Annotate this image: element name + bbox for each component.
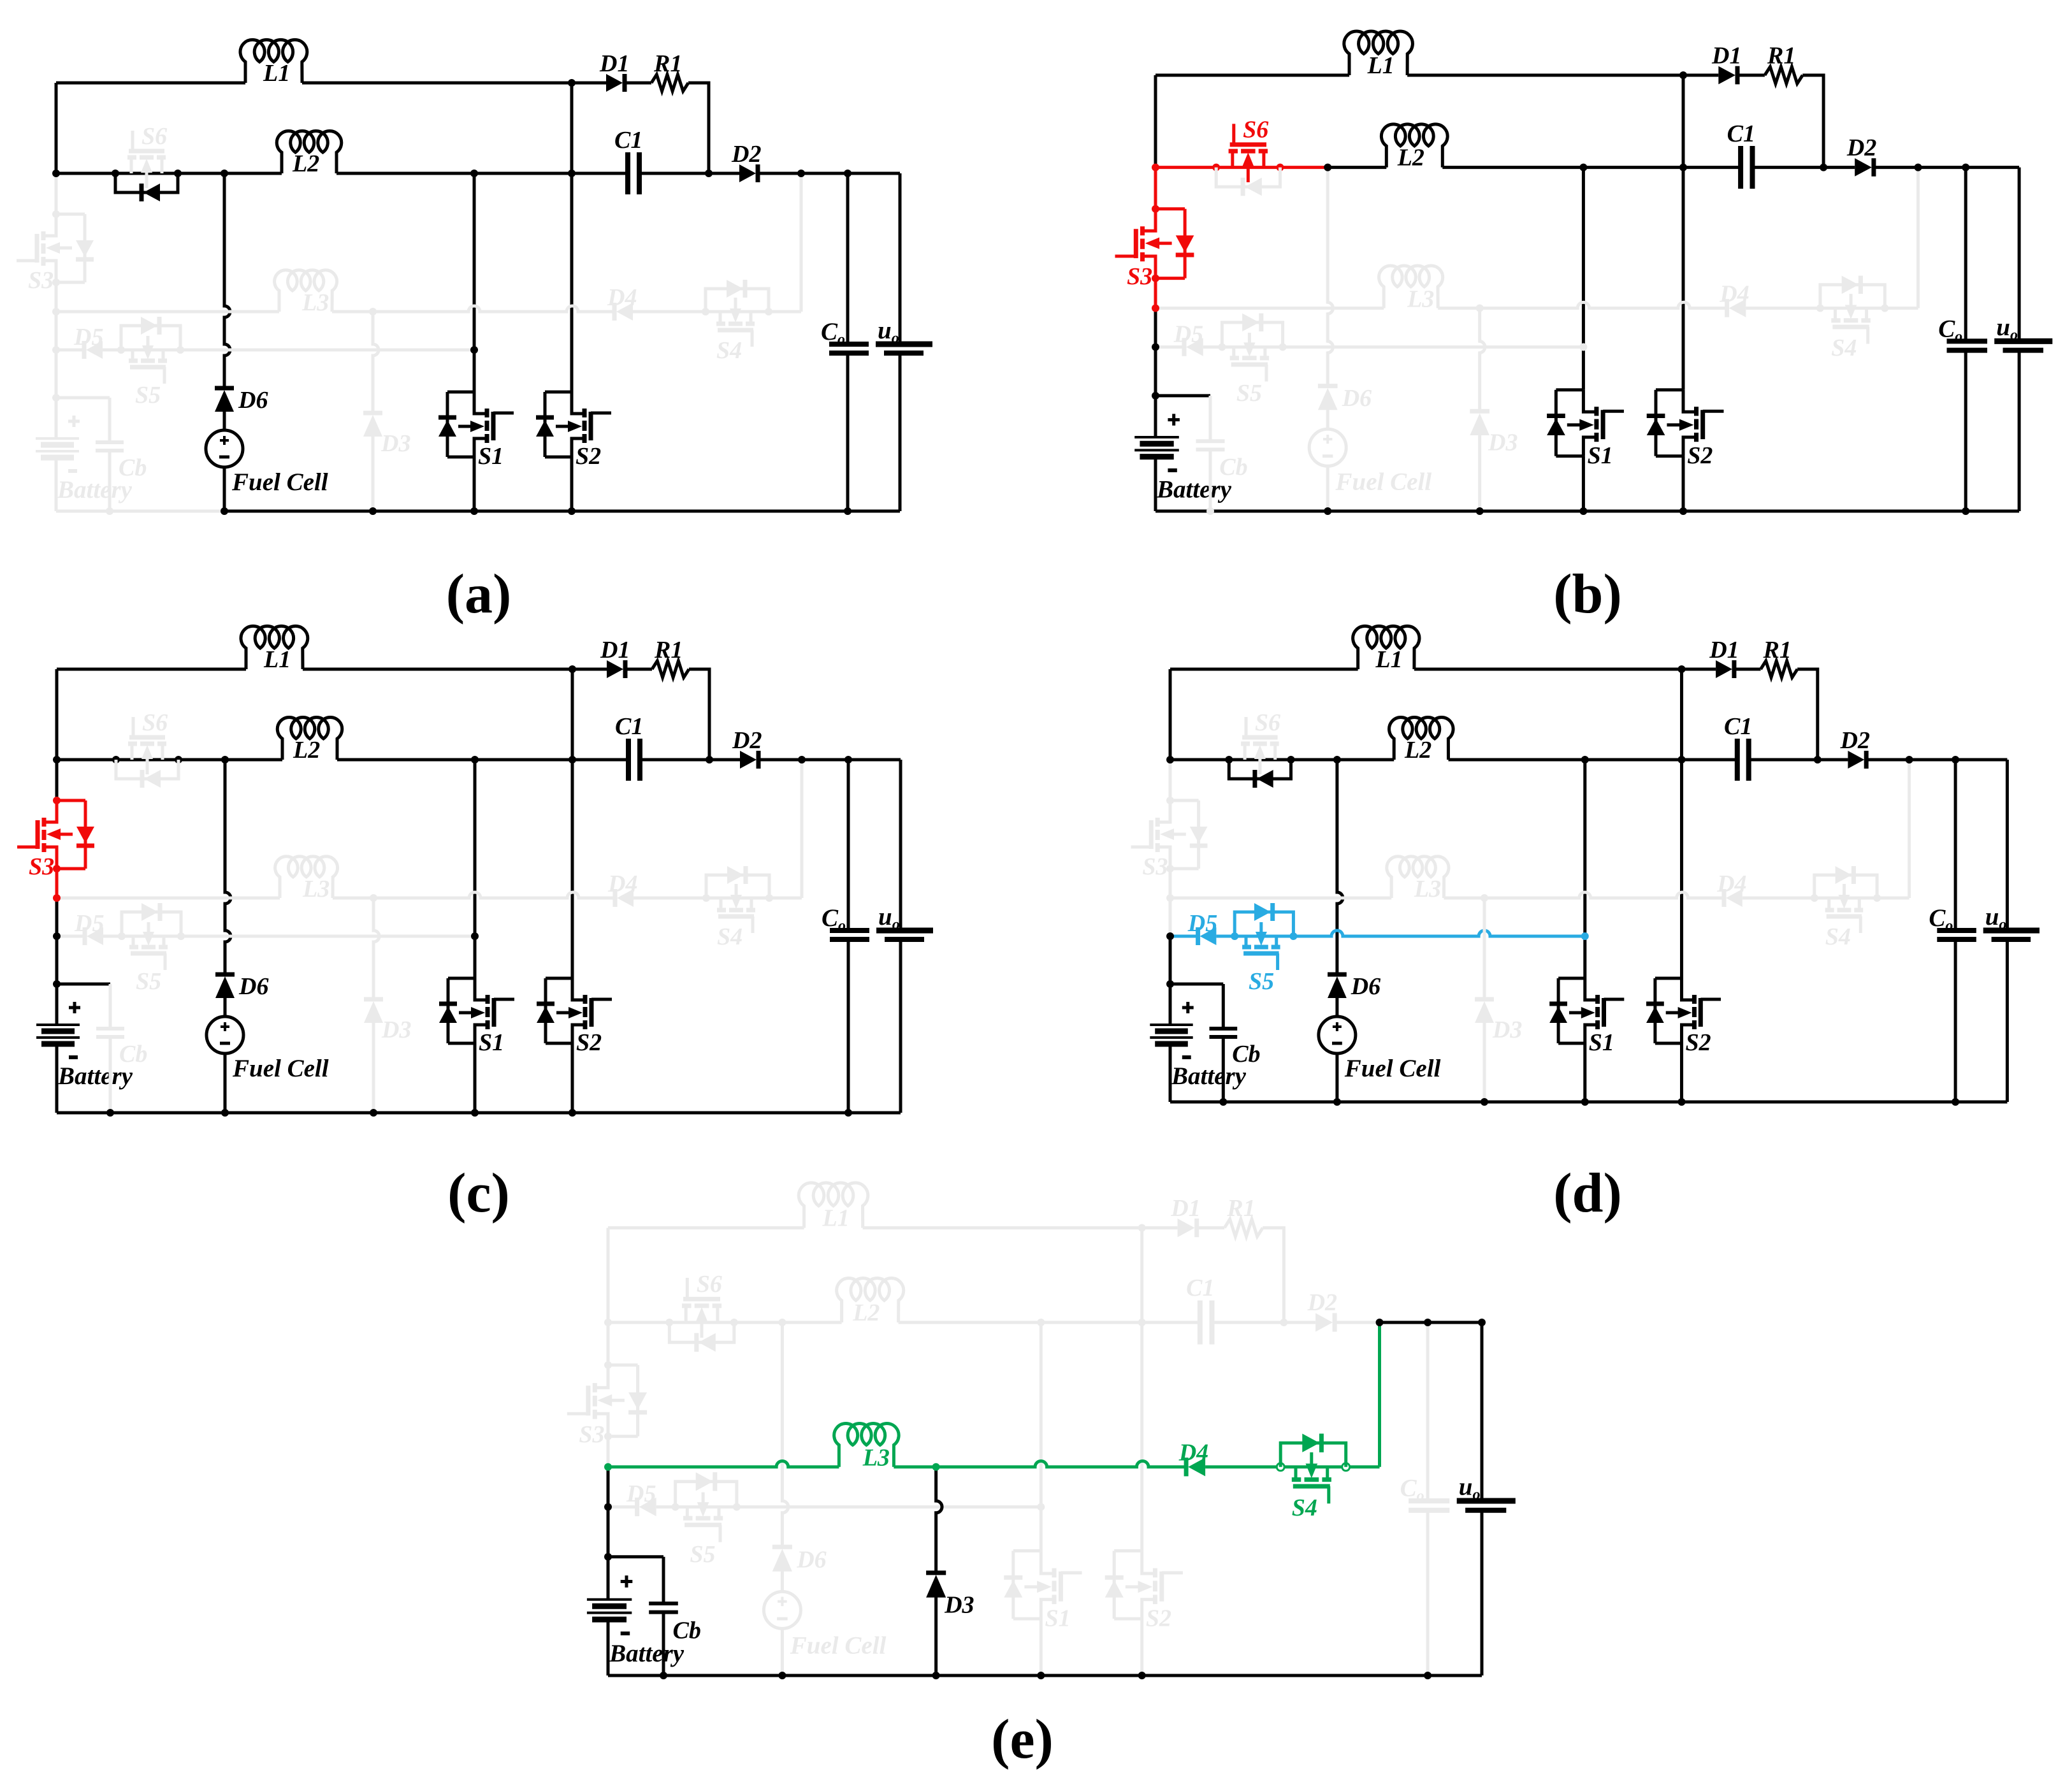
wire Co top lead: [1426, 1322, 1430, 1501]
wire left rail S3 lower: [55, 869, 59, 898]
node left rail / L2 rail junction: [53, 756, 61, 763]
node left rail / D5 rail junction: [53, 932, 61, 940]
inductor L1: [241, 626, 308, 669]
node S4 loop right junction: [1873, 894, 1881, 902]
node S4 loop right junction: [765, 894, 773, 902]
node D3 / L3 rail junction: [369, 308, 377, 315]
svg-text:R1: R1: [1767, 43, 1795, 69]
transistor S5 arrow: [1248, 333, 1251, 351]
wire left rail to D5 node: [55, 898, 59, 936]
node S2 / L2 rail junction: [568, 170, 576, 177]
wire S2 source stub: [546, 1042, 572, 1045]
voltage source uo plates: [1983, 928, 2039, 934]
node left rail / L3 rail junction: [53, 894, 61, 902]
svg-text:Fuel Cell: Fuel Cell: [1344, 1055, 1441, 1082]
battery plates: [36, 1024, 80, 1026]
wire fuel cell top lead: [223, 407, 226, 430]
wire S2 drain riser upper: [570, 83, 574, 173]
node S3 bottom junction: [52, 279, 60, 286]
transistor S6 channel: [682, 1303, 692, 1308]
inductor L2: [837, 1278, 904, 1322]
voltage source uo plates: [1457, 1498, 1516, 1504]
transistor S6 gate: [683, 1297, 720, 1301]
battery plus sign: [625, 1575, 628, 1588]
svg-text:L3: L3: [301, 289, 329, 316]
transistor S4 leads: [720, 898, 723, 910]
node Cb / bottom rail junction: [106, 507, 113, 515]
wire S5 body-diode loop: [1222, 322, 1282, 347]
wire S2 drain riser upper: [1680, 669, 1683, 760]
wire D1 to R1: [627, 668, 652, 671]
wire S2 drain riser upper: [1682, 75, 1685, 168]
transistor S6 gate: [1242, 735, 1278, 740]
transistor S2 drain lead: [1142, 1551, 1156, 1574]
transistor S1 gate: [491, 412, 496, 440]
transistor S6 gate lead: [132, 717, 135, 737]
transistor S2 channel: [583, 995, 588, 1004]
transistor S3 arrow: [604, 1399, 625, 1402]
transistor S4 arrow: [1843, 884, 1846, 902]
transistor S3 drain lead: [1143, 256, 1156, 279]
wire L3 rail segment 1: [56, 310, 279, 314]
transistor S3 channel: [593, 1410, 597, 1419]
wire top rail to D1: [1142, 1226, 1178, 1229]
svg-text:S1: S1: [1588, 442, 1613, 469]
wire uo bottom lead: [899, 939, 902, 1113]
node Cb / bottom rail junction: [660, 1672, 667, 1679]
wire L3 rail segment 4: [1877, 897, 1909, 900]
node R1 branch / L2 rail junction: [705, 170, 713, 177]
wire D3 branch upper: [1483, 898, 1486, 999]
wire riser to output node: [1908, 760, 1911, 898]
node S4 loop left junction: [702, 308, 709, 315]
wire uo top lead: [1481, 1322, 1484, 1501]
diode body-diode of S2: [536, 416, 554, 420]
transistor S1 source lead: [1041, 1600, 1054, 1619]
wire L3 rail through S4: [706, 897, 769, 900]
wire S1 drain stub: [447, 391, 474, 394]
svg-text:Cb: Cb: [673, 1617, 701, 1644]
diode D5: [87, 927, 103, 945]
wire left rail to battery: [1169, 936, 1172, 984]
transistor S3 channel: [42, 843, 47, 852]
svg-text:L1: L1: [1367, 52, 1395, 79]
wire bottom rail right: [225, 1111, 901, 1115]
node left rail / L2 rail junction: [1152, 164, 1159, 171]
wire left rail S3 upper: [55, 173, 58, 214]
transistor S6 gate: [1230, 142, 1266, 147]
wire L3 rail through S4: [706, 310, 769, 314]
wire D5 rail segment 2: [103, 935, 475, 938]
wire S4 body-diode loop: [1815, 875, 1877, 898]
wire S1 drain riser: [1040, 1322, 1043, 1551]
inductor L3: [834, 1424, 899, 1467]
wire L3 rail segment 2: [1444, 892, 1724, 898]
wire S1 source lead: [1583, 1043, 1586, 1102]
node S3 bottom junction: [53, 865, 61, 872]
wire left rail to battery: [55, 350, 58, 398]
wire battery bottom lead: [55, 1044, 59, 1113]
node left rail / L2 rail junction: [52, 170, 60, 177]
svg-text:D1: D1: [1711, 43, 1741, 69]
diode body-diode of S3: [76, 240, 94, 257]
fuel cell plus: [1326, 435, 1329, 444]
wire fuel cell top lead: [1326, 405, 1329, 429]
diode D2: [739, 164, 756, 182]
svg-text:S2: S2: [1686, 1029, 1711, 1056]
diode D3: [364, 1001, 383, 1023]
node S6 loop left junction: [665, 1319, 673, 1326]
diode body-diode of S6: [699, 1333, 716, 1352]
wire L3 rail through S4: [1820, 307, 1885, 310]
wire D2 to node: [1335, 1321, 1379, 1324]
wire S2 source stub: [1114, 1617, 1142, 1621]
node S3 bottom junction: [1166, 865, 1174, 872]
wire D1 to R1: [1735, 668, 1761, 671]
svg-text:S3: S3: [579, 1421, 604, 1448]
wire L2 rail segment 1: [608, 1321, 782, 1324]
svg-text:D2: D2: [1307, 1289, 1337, 1316]
node Co / output rail junction: [1962, 164, 1969, 171]
diode body-diode of S4: [727, 280, 743, 298]
svg-text:D6: D6: [238, 973, 268, 1000]
transistor S5 arrow: [147, 922, 150, 939]
node S6 loop right junction: [730, 1319, 738, 1326]
node R1 branch / L2 rail junction: [1820, 164, 1827, 171]
diode body-diode of S1: [1547, 414, 1565, 418]
transistor S5 gate: [1243, 952, 1279, 956]
node Co / bottom rail junction: [1424, 1672, 1431, 1679]
svg-text:S3: S3: [28, 267, 54, 294]
diode D6: [1318, 388, 1338, 410]
wire S3 top stub: [1170, 799, 1199, 802]
node S2 / bottom rail junction: [1138, 1672, 1146, 1679]
transistor S6 channel: [1241, 742, 1250, 746]
node fuel cell / bottom rail junction: [221, 1109, 229, 1117]
wire top rail right segment: [863, 1226, 1142, 1229]
node S5 loop left junction: [672, 1503, 679, 1511]
svg-text:S4: S4: [717, 923, 743, 950]
wire D5 rail segment 1: [56, 349, 86, 352]
svg-text:D6: D6: [796, 1547, 826, 1574]
transistor S6 arrow: [1258, 751, 1261, 774]
svg-text:(d): (d): [1553, 1162, 1622, 1224]
wire L3 rail segment 2: [332, 306, 614, 312]
node top rail / S2 junction: [568, 79, 576, 87]
diode body-diode of S5: [1242, 314, 1259, 331]
wire L2 rail segment 3: [1449, 758, 1737, 762]
node D3 / bottom rail junction: [1476, 507, 1484, 515]
svg-text:D5: D5: [74, 910, 104, 937]
resistor R1: [1761, 661, 1798, 677]
wire S3 bottom stub: [56, 281, 85, 284]
inductor L1: [799, 1183, 868, 1228]
diode body-diode of S1: [1549, 1002, 1567, 1006]
wire Co bottom lead: [846, 353, 850, 511]
wire S2 source lead: [1682, 456, 1685, 511]
node S2 / L2 rail junction: [1678, 756, 1686, 763]
battery plus sign: [73, 416, 76, 427]
node D3 / L3 rail junction: [1476, 305, 1484, 312]
diode D6: [215, 976, 235, 998]
wire top rail right segment: [303, 668, 572, 671]
svg-text:S4: S4: [1292, 1494, 1317, 1521]
wire D6 branch upper: [225, 760, 231, 974]
wire bottom rail right: [782, 1674, 1482, 1677]
capacitor C1: [626, 739, 631, 781]
transistor S5 leads: [686, 1507, 689, 1519]
wire left rail S3 upper: [55, 760, 59, 800]
node Co / bottom rail junction: [844, 1109, 852, 1117]
wire fuel cell bottom lead: [781, 1630, 784, 1675]
transistor S3 gate: [1134, 229, 1138, 258]
diode D1: [1178, 1219, 1195, 1237]
wire S1 drain stub: [1558, 977, 1585, 980]
svg-text:D3: D3: [380, 430, 410, 457]
diode D2: [1855, 158, 1872, 176]
wire S4 body-diode loop: [706, 875, 769, 898]
svg-text:C1: C1: [614, 127, 642, 154]
wire L3 rail segment 3: [633, 310, 706, 314]
wire Cb bottom lead: [662, 1612, 665, 1675]
wire S2 drain stub: [1655, 977, 1682, 980]
transistor S4 gate: [1827, 915, 1862, 919]
wire S2 source lead: [1140, 1619, 1143, 1675]
wire uo bottom lead: [2018, 351, 2021, 511]
svg-text:D4: D4: [1719, 280, 1749, 307]
svg-text:D3: D3: [1488, 429, 1518, 456]
node S1 / L2 rail junction: [471, 756, 479, 763]
diode body-diode of S1: [438, 416, 456, 420]
transistor S3 source lead: [595, 1365, 608, 1388]
node Co / output rail junction: [1424, 1319, 1431, 1326]
node top rail / S2 junction: [1138, 1224, 1146, 1232]
wire bottom rail left: [1170, 1101, 1337, 1104]
wire S1 source lead: [473, 457, 476, 511]
wire D5 rail segment 1: [1156, 345, 1186, 349]
wire C1 to D2: [1212, 1321, 1316, 1324]
node R1 branch / L2 rail junction: [1280, 1319, 1287, 1326]
wire left rail to battery: [1154, 347, 1157, 396]
wire R1 corner down: [1802, 75, 1823, 168]
battery minus sign: [621, 1632, 630, 1635]
node battery stub junction: [1166, 980, 1174, 988]
node S6 loop right junction: [174, 170, 182, 177]
node D5 rail / S1 riser junction: [1581, 932, 1589, 940]
wire S2 drain stub: [1114, 1549, 1142, 1552]
node D5 rail / S1 riser junction: [1579, 344, 1587, 351]
node S4 loop right junction: [1881, 305, 1888, 312]
wire bottom rail right: [1328, 510, 2019, 513]
node S1 / bottom rail junction: [471, 1109, 479, 1117]
node S1 / L2 rail junction: [1581, 756, 1589, 763]
svg-text:(c): (c): [447, 1162, 510, 1224]
wire battery bottom lead: [55, 458, 58, 511]
node S3 bottom junction: [604, 1433, 612, 1440]
diode body-diode of S4: [727, 866, 744, 884]
wire Co top lead: [1964, 168, 1967, 342]
wire left rail upper: [1154, 75, 1157, 168]
transistor S4 arrow: [1310, 1452, 1313, 1472]
wire top rail left segment: [56, 82, 245, 85]
transistor S1 source lead: [475, 1025, 488, 1043]
svg-text:S5: S5: [1236, 380, 1262, 407]
node D3 / bottom rail junction: [932, 1672, 940, 1679]
fuel cell minus: [777, 1617, 788, 1621]
svg-text:L2: L2: [852, 1299, 880, 1326]
diode D5: [639, 1498, 656, 1516]
node Co / output rail junction: [1952, 756, 1959, 763]
battery plates: [1150, 1024, 1192, 1026]
fuel cell source circle: [1309, 429, 1346, 466]
wire Cb top lead: [1222, 984, 1225, 1029]
svg-text:L1: L1: [1375, 646, 1402, 673]
node Cb / bottom rail junction: [106, 1109, 114, 1117]
diode D6: [1328, 976, 1347, 998]
inductor L1: [240, 40, 307, 83]
node output node after D2: [1376, 1319, 1384, 1326]
transistor S1 gate: [1602, 998, 1606, 1027]
node fuel cell / bottom rail junction: [1324, 507, 1331, 515]
wire left rail upper: [55, 669, 59, 760]
diode body-diode of S2 branch: [1655, 390, 1658, 456]
wire C1 to D2: [1753, 166, 1855, 169]
node R1 branch / L2 rail junction: [706, 756, 713, 763]
wire C1 to D2: [640, 758, 740, 762]
transistor S3 arrow: [52, 247, 72, 250]
node D6 branch / L2 rail junction: [778, 1319, 786, 1326]
node D3 / L3 rail junction: [370, 894, 377, 902]
node battery stub junction: [1152, 392, 1159, 400]
wire S3 diode branch: [1184, 209, 1187, 279]
wire left rail to battery: [55, 936, 59, 984]
wire left rail upper: [607, 1228, 610, 1322]
transistor S2 channel: [1692, 995, 1697, 1004]
diode D1: [1718, 66, 1735, 85]
wire uo top lead: [899, 760, 902, 930]
node left rail / D5 rail junction: [1152, 344, 1159, 351]
wire left rail to D5 node: [1154, 308, 1157, 347]
wire battery bottom lead: [1169, 1044, 1172, 1102]
wire battery top lead: [1154, 396, 1157, 437]
node S1 / bottom rail junction: [1579, 507, 1587, 515]
wire S2 drain stub: [546, 977, 572, 980]
svg-text:Fuel Cell: Fuel Cell: [1335, 468, 1432, 496]
wire S3 bottom stub: [1170, 867, 1199, 871]
transistor S6 arrow: [145, 165, 149, 188]
wire bottom rail left: [1156, 510, 1328, 513]
wire battery top lead: [55, 984, 59, 1025]
transistor S1 arrow: [1569, 1011, 1589, 1015]
wire S2 drain stub: [545, 391, 572, 394]
diode body-diode of S2: [537, 1002, 554, 1006]
transistor S1 channel: [1052, 1568, 1057, 1578]
wire Cb bottom lead: [1222, 1037, 1225, 1102]
wire D5 rail segment 2: [656, 1505, 1041, 1509]
diode body-diode of S1: [439, 1002, 457, 1006]
node Co / bottom rail junction: [1952, 1098, 1959, 1106]
capacitor Cb: [649, 1602, 678, 1605]
wire S5 body-diode loop: [121, 326, 180, 350]
wire L2 rail segment 2: [224, 172, 282, 175]
svg-text:D4: D4: [1178, 1439, 1208, 1466]
transistor S4 channel: [1831, 318, 1840, 322]
wire D3 branch lower: [372, 1018, 375, 1113]
inductor L3: [1387, 857, 1449, 898]
wire C1 to D2: [639, 172, 739, 175]
inductor L2: [277, 717, 342, 760]
wire L3 rail segment 3: [1205, 1465, 1280, 1468]
wire bottom rail left: [57, 1111, 225, 1115]
node D5 rail / S1 riser junction: [471, 932, 479, 940]
diode body-diode of S3: [1176, 235, 1194, 252]
svg-text:D4: D4: [607, 871, 637, 897]
wire L2 rail segment 2: [782, 1321, 841, 1324]
transistor S6 channel: [1229, 149, 1238, 154]
transistor S1 drain lead: [1583, 390, 1597, 412]
node S6 loop left junction: [112, 756, 120, 763]
transistor S2 arrow: [1126, 1585, 1146, 1588]
wire D1 to R1: [1198, 1226, 1225, 1229]
transistor S1 source lead: [1585, 1025, 1598, 1043]
wire fuel cell bottom lead: [224, 1053, 227, 1113]
svg-text:D2: D2: [1846, 134, 1876, 161]
wire L3 rail segment 1: [1170, 897, 1391, 900]
transistor S4 arrow: [1850, 294, 1853, 313]
capacitor Cb: [1210, 1027, 1238, 1031]
wire R1 corner down: [688, 83, 709, 173]
node battery stub junction: [53, 980, 61, 988]
transistor S5 channel: [129, 359, 138, 363]
transistor S6 gate lead: [1245, 717, 1248, 737]
diode body-diode of S5: [1254, 903, 1271, 921]
node D3 / bottom rail junction: [369, 507, 377, 515]
wire top rail right segment: [1407, 74, 1683, 77]
voltage source uo plates: [1994, 338, 2052, 344]
wire riser to output node: [801, 760, 804, 898]
wire L2 rail segment 1: [1156, 166, 1328, 169]
resistor R1: [1224, 1219, 1263, 1236]
svg-text:Cb: Cb: [1219, 454, 1247, 481]
node D6 branch / L2 rail junction: [221, 756, 229, 763]
transistor S3 source lead: [1143, 209, 1156, 231]
transistor S1 arrow: [459, 1011, 479, 1015]
fuel cell source circle: [764, 1591, 801, 1628]
diode D1: [606, 74, 623, 92]
transistor S2 gate: [1159, 1572, 1164, 1602]
node Co / bottom rail junction: [1962, 507, 1969, 515]
node fuel cell / bottom rail junction: [1333, 1098, 1341, 1106]
wire riser to output node: [800, 173, 803, 312]
transistor S2 source lead: [572, 438, 584, 457]
wire S2 drain riser: [1140, 1322, 1143, 1551]
wire L3 rail segment 1: [1156, 307, 1384, 310]
wire L3 rail segment 3: [1742, 897, 1815, 900]
svg-text:(a): (a): [446, 563, 512, 625]
node S2 / bottom rail junction: [1679, 507, 1687, 515]
wire fuel cell bottom lead: [1326, 467, 1329, 511]
wire S3 diode branch: [83, 214, 87, 282]
svg-text:S1: S1: [1045, 1605, 1071, 1632]
node left rail / L3 rail junction: [1166, 894, 1174, 902]
transistor S1 gate: [1601, 410, 1605, 439]
svg-text:D1: D1: [1170, 1195, 1200, 1222]
transistor S4 arrow: [735, 884, 738, 902]
diode D5: [86, 341, 103, 359]
diode body-diode of S3: [76, 827, 94, 843]
svg-text:D6: D6: [238, 387, 268, 414]
wire L3 rail segment 4: [769, 897, 802, 900]
